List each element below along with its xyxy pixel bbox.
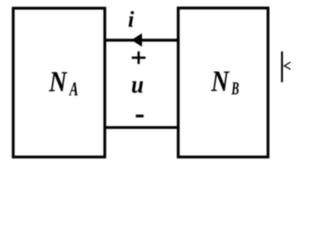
network box N_B	[178, 8, 268, 157]
label i	[129, 11, 135, 27]
minus sign	[136, 115, 144, 118]
label N_A	[49, 72, 78, 95]
plus sign	[132, 51, 146, 64]
cropped arrow mark at right edge	[282, 51, 291, 82]
label u	[132, 81, 143, 93]
label N_B	[211, 72, 239, 95]
current arrow head	[132, 33, 143, 47]
wire bottom	[105, 126, 178, 129]
network box N_A	[13, 8, 105, 157]
wire top	[105, 39, 178, 42]
